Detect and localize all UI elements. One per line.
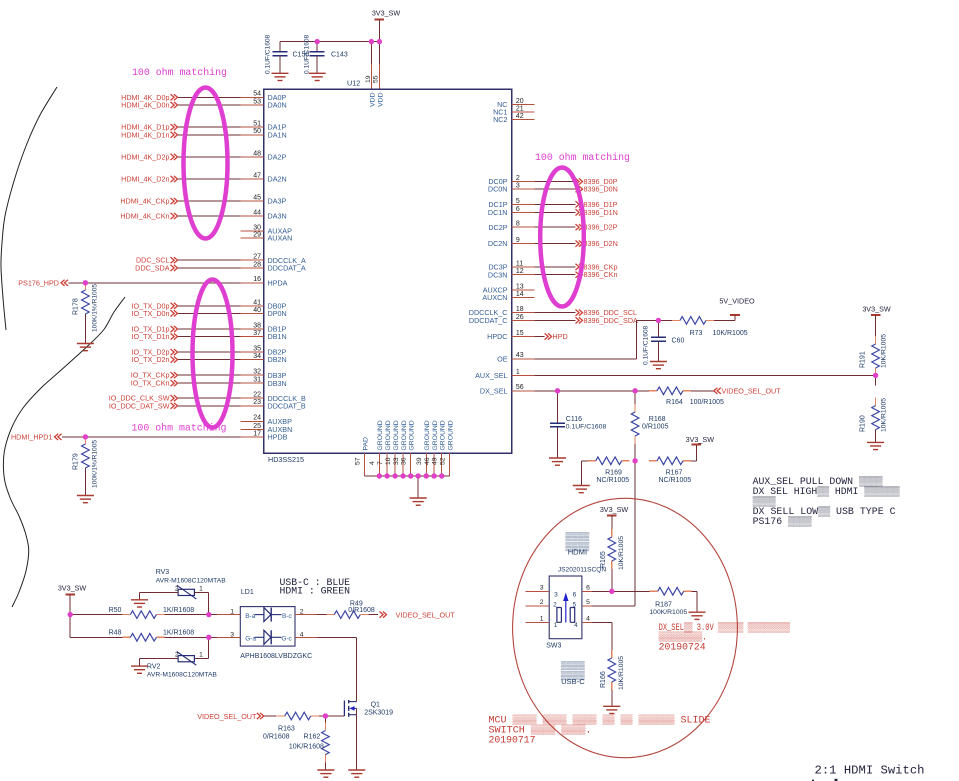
pin 38 DB1P (U12 left) — [241, 322, 287, 333]
svg-text:52: 52 — [440, 457, 447, 465]
svg-text:3V3_SW: 3V3_SW — [862, 304, 891, 313]
resistor R190 — [860, 375, 888, 442]
svg-text:44: 44 — [253, 209, 261, 216]
pin 54 DA0P (U12 left) — [241, 91, 287, 102]
pin 41 DB0P (U12 left) — [241, 299, 287, 310]
svg-text:1: 1 — [554, 622, 558, 629]
pin 17 HPDB (U12 left) — [241, 430, 288, 441]
junction AUX_SEL divider — [873, 373, 878, 378]
pin 25 AUXBN (U12 left) — [241, 423, 293, 434]
pin 16 HPDA (U12 left) — [241, 276, 288, 287]
svg-text:25: 25 — [253, 423, 261, 430]
svg-text:19: 19 — [365, 75, 372, 83]
svg-text:Q1: Q1 — [371, 701, 380, 708]
wire net HDMI_4K_D1p — [178, 126, 241, 128]
transistor Q1 2SK3019 — [344, 700, 393, 717]
wire net 8396_D1P — [535, 203, 576, 205]
wire to LED pin1 — [209, 614, 241, 616]
svg-text:20: 20 — [516, 98, 524, 105]
svg-text:GROUND: GROUND — [448, 420, 455, 450]
ground RV2 — [131, 666, 148, 673]
svg-text:41: 41 — [253, 299, 261, 306]
svg-text:100K/R1005: 100K/R1005 — [649, 609, 687, 616]
svg-text:10K/R1608: 10K/R1608 — [289, 744, 324, 751]
junction ground bus — [400, 473, 405, 478]
resistor R49 — [326, 600, 378, 618]
svg-text:8396_DDC_SDA: 8396_DDC_SDA — [584, 316, 639, 325]
junction C60 — [656, 318, 661, 323]
svg-text:G-c: G-c — [281, 636, 292, 643]
wire net IO_TX_CKp — [178, 374, 241, 376]
svg-text:5V_VIDEO: 5V_VIDEO — [719, 297, 755, 306]
svg-text:2: 2 — [175, 652, 179, 659]
pin 4 SW3 right — [582, 615, 592, 622]
svg-text:13: 13 — [516, 283, 524, 290]
svg-text:GROUND: GROUND — [409, 420, 416, 450]
annotation ellipse (DC matching) — [540, 168, 584, 307]
node 8396_CKp label — [576, 262, 618, 271]
svg-text:21: 21 — [516, 106, 524, 113]
pin 49 GROUND — [432, 420, 447, 476]
wire SW3 pin4 to R166 — [592, 622, 612, 650]
wire OE net — [535, 320, 673, 358]
pin 47 DA2N (U12 left) — [241, 172, 287, 183]
svg-text:LD1: LD1 — [241, 589, 254, 596]
svg-text:HDMI_4K_D0n: HDMI_4K_D0n — [121, 101, 169, 110]
svg-text:1: 1 — [230, 608, 234, 615]
pin 32 DB3P (U12 left) — [241, 369, 287, 380]
svg-text:3V3_SW: 3V3_SW — [600, 505, 629, 514]
ground C60 — [650, 362, 667, 369]
annotation ellipse (DB matching) — [193, 280, 233, 428]
annotation ellipse (DA matching) — [184, 88, 228, 239]
wire ground bus — [365, 475, 450, 477]
svg-text:26: 26 — [516, 314, 524, 321]
svg-text:DB3N: DB3N — [268, 379, 287, 388]
svg-text:▒▒▒▒: ▒▒▒▒ — [565, 531, 590, 541]
svg-text:14: 14 — [516, 291, 524, 298]
pin 36 GROUND — [401, 420, 416, 476]
wire net 8396_DDC_SDA — [535, 319, 576, 321]
pin 31 DB3N (U12 left) — [241, 377, 287, 388]
pin 45 DA3P (U12 left) — [241, 195, 287, 206]
junction R50 — [68, 612, 73, 617]
node HDMI_4K_D0p label — [121, 93, 177, 102]
svg-text:56: 56 — [516, 384, 524, 391]
annotation curve left-top — [1, 87, 57, 330]
ground Q1 — [348, 770, 365, 777]
svg-text:HDMI : GREEN: HDMI : GREEN — [280, 586, 351, 597]
svg-text:22: 22 — [253, 392, 261, 399]
svg-text:49: 49 — [432, 457, 439, 465]
svg-text:DA3N: DA3N — [268, 212, 287, 221]
pin 5 SW3 right — [582, 599, 592, 606]
svg-text:28: 28 — [253, 261, 261, 268]
svg-text:RV2: RV2 — [147, 664, 161, 671]
svg-text:HDMI: HDMI — [568, 548, 587, 557]
svg-text:16: 16 — [253, 276, 261, 283]
svg-text:R73: R73 — [690, 330, 703, 337]
node VIDEO_SEL_OUT label (Q1) — [197, 712, 264, 721]
svg-text:8396_D1N: 8396_D1N — [584, 208, 618, 217]
resistor R50 — [109, 607, 209, 618]
ground R166 — [603, 706, 620, 713]
svg-text:100K/1%/R1005: 100K/1%/R1005 — [92, 440, 99, 488]
svg-text:AVR-M1608C120MTAB: AVR-M1608C120MTAB — [147, 671, 218, 678]
svg-text:DA0N: DA0N — [268, 101, 287, 110]
svg-text:2: 2 — [175, 585, 179, 592]
svg-text:R164: R164 — [666, 399, 683, 406]
wire net HDMI_4K_D0p — [178, 96, 241, 98]
ground U12 pad — [410, 498, 427, 505]
svg-text:GROUND: GROUND — [393, 420, 400, 450]
node VIDEO_SEL_OUT label (LED) — [380, 610, 456, 619]
pin 15 HPDC (U12 right) — [487, 330, 534, 341]
wire net 8396_D2P — [535, 226, 576, 228]
svg-text:0.1UF/C1608: 0.1UF/C1608 — [265, 34, 272, 74]
wire net HDMI_4K_D0n — [178, 104, 241, 106]
svg-text:45: 45 — [253, 195, 261, 202]
svg-text:GROUND: GROUND — [424, 420, 431, 450]
node 8396_CKn label — [576, 270, 618, 279]
svg-text:3: 3 — [230, 631, 234, 638]
node IO_TX_CKn label — [131, 379, 178, 388]
svg-text:IO_TX_D2n: IO_TX_D2n — [132, 355, 170, 364]
svg-text:U12: U12 — [347, 79, 360, 88]
svg-text:VIDEO_SEL_OUT: VIDEO_SEL_OUT — [396, 610, 456, 619]
node IO_TX_D2n label — [132, 355, 178, 364]
svg-text:R165: R165 — [600, 551, 607, 568]
wire 3V3_SW stem — [378, 19, 380, 41]
wire SW3 pin6 to R187 — [592, 590, 650, 592]
svg-text:B-c: B-c — [282, 613, 293, 620]
svg-text:DB2N: DB2N — [268, 355, 287, 364]
svg-text:AUX_SEL: AUX_SEL — [475, 371, 507, 380]
svg-text:57: 57 — [355, 457, 362, 465]
node HDMI_4K_CKn label — [120, 212, 177, 221]
svg-text:DC3N: DC3N — [488, 270, 508, 279]
switch SW3 internals — [553, 592, 578, 630]
svg-text:HPDA: HPDA — [268, 278, 288, 287]
svg-text:HDMI_4K_D2n: HDMI_4K_D2n — [121, 175, 169, 184]
pin 9 DC2N (U12 right) — [488, 237, 535, 248]
junction VDD19 — [369, 39, 374, 44]
pin 35 DB2P (U12 left) — [241, 346, 287, 357]
pin 53 DA0N (U12 left) — [241, 98, 287, 109]
wire R73 to 5V — [714, 319, 735, 321]
node HDMI_4K_CKp label — [120, 197, 177, 206]
svg-text:23: 23 — [253, 399, 261, 406]
pin 4 GROUND — [369, 420, 384, 476]
pin 43 OE (U12 right) — [497, 352, 534, 363]
resistor R163 — [263, 712, 325, 740]
svg-text:VDD: VDD — [369, 92, 376, 106]
svg-text:DDCDAT_C: DDCDAT_C — [469, 316, 508, 325]
svg-text:0.1UF/C1608: 0.1UF/C1608 — [566, 424, 607, 431]
wire net IO_TX_CKn — [178, 382, 241, 384]
svg-text:6: 6 — [516, 206, 520, 213]
junction ground bus — [392, 473, 397, 478]
svg-text:10K/R1005: 10K/R1005 — [881, 398, 888, 432]
svg-text:5: 5 — [516, 198, 520, 205]
wire net 8396_D2N — [535, 243, 576, 245]
svg-text:DC1N: DC1N — [488, 208, 508, 217]
svg-text:1K/R1608: 1K/R1608 — [163, 607, 194, 614]
svg-text:12: 12 — [516, 268, 524, 275]
pin 26 DDCDAT_C (U12 right) — [469, 314, 535, 325]
note MCU SLIDE SWITCH — [489, 714, 711, 746]
wire LED pin4 to Q1 drain — [295, 637, 357, 701]
pin 24 AUXBP (U12 left) — [241, 415, 293, 426]
node 8396_D0N label — [576, 185, 618, 194]
svg-text:17: 17 — [253, 430, 261, 437]
resistor R165 — [600, 516, 625, 592]
wire net DDC_SDA — [178, 267, 241, 269]
ground C143 — [309, 73, 326, 80]
svg-text:USB-C: USB-C — [561, 677, 585, 686]
svg-text:IO_TX_D1n: IO_TX_D1n — [132, 332, 170, 341]
svg-text:PS176 ▒▒▒▒: PS176 ▒▒▒▒ — [753, 515, 812, 527]
junction ground bus — [377, 473, 382, 478]
svg-text:2: 2 — [516, 175, 520, 182]
resistor R162 — [289, 716, 329, 770]
svg-text:R168: R168 — [649, 416, 666, 423]
svg-text:R179: R179 — [73, 453, 80, 470]
pin 23 DDCDAT_B (U12 left) — [241, 399, 306, 410]
svg-text:8: 8 — [516, 221, 520, 228]
svg-text:DC2P: DC2P — [488, 223, 507, 232]
junction R179 — [83, 434, 88, 439]
wire net HDMI_4K_CKp — [178, 200, 241, 202]
wire to LED pin3 — [209, 636, 241, 638]
svg-text:6: 6 — [573, 592, 577, 599]
svg-text:1: 1 — [540, 615, 544, 622]
svg-text:GROUND: GROUND — [377, 420, 384, 450]
svg-text:DA2P: DA2P — [268, 153, 287, 162]
junction ground stem — [416, 473, 421, 478]
resistor R164 — [649, 387, 724, 406]
pin 40 DP0N (U12 left) — [241, 307, 287, 318]
wire top power rail — [280, 41, 379, 43]
node VIDEO_SEL_OUT label (right) — [714, 386, 781, 395]
svg-text:R191: R191 — [860, 351, 867, 368]
svg-text:32: 32 — [253, 369, 261, 376]
wire VDD pin55 — [378, 42, 380, 89]
svg-text:4: 4 — [369, 461, 376, 465]
diode LD1 green — [245, 630, 292, 644]
pin 33 GROUND — [393, 420, 408, 476]
pin 51 DA1P (U12 left) — [241, 121, 287, 132]
pin 39 GROUND — [416, 420, 431, 476]
svg-text:8396_D2P: 8396_D2P — [584, 223, 618, 232]
node IO_TX_D2p label — [132, 348, 178, 357]
partial text below title — [812, 779, 838, 781]
capacitor C116 — [550, 391, 606, 458]
svg-text:R187: R187 — [655, 601, 672, 608]
ground C116 — [549, 458, 566, 465]
svg-text:DX_SEL: DX_SEL — [480, 386, 508, 395]
junction ground bus — [408, 473, 413, 478]
wire net HPD — [535, 336, 545, 338]
junction R162/gate — [323, 713, 328, 718]
svg-text:1: 1 — [199, 585, 203, 592]
node HDMI_4K_D2p label — [121, 152, 177, 161]
wire net HDMI_4K_D2p — [178, 156, 241, 158]
ground RV3 — [131, 600, 148, 607]
svg-text:100 ohm matching: 100 ohm matching — [535, 152, 630, 163]
node 8396_D1P label — [576, 200, 618, 209]
pin 52 GROUND — [440, 420, 455, 476]
svg-text:100 ohm matching: 100 ohm matching — [132, 423, 227, 434]
wire net IO_TX_D1n — [178, 336, 241, 338]
svg-text:33: 33 — [393, 457, 400, 465]
svg-text:NC2: NC2 — [493, 115, 507, 124]
svg-text:3V3_SW: 3V3_SW — [686, 435, 715, 444]
node DDC_SDA label — [135, 263, 177, 272]
wire Q1 source — [356, 708, 358, 770]
svg-text:DC0N: DC0N — [488, 185, 508, 194]
pin 13 AUXCP (U12 right) — [483, 283, 535, 294]
svg-text:8396_CKn: 8396_CKn — [584, 270, 618, 279]
wire net HDMI_4K_D2n — [178, 178, 241, 180]
svg-text:APHB1608LVBDZGKC: APHB1608LVBDZGKC — [240, 653, 312, 660]
svg-text:DDCDAT_A: DDCDAT_A — [268, 264, 306, 273]
wire AUX_SEL net — [535, 374, 876, 376]
varistor RV3 — [140, 569, 227, 615]
resistor R166 — [600, 650, 625, 706]
node 8396_DDC_SCL label — [576, 308, 638, 317]
svg-text:15: 15 — [516, 330, 524, 337]
svg-text:6: 6 — [586, 584, 590, 591]
svg-text:34: 34 — [253, 353, 261, 360]
svg-text:3V3_SW: 3V3_SW — [58, 583, 87, 592]
wire net 8396_D0P — [535, 181, 576, 183]
pin 28 DDCDAT_A (U12 left) — [241, 261, 306, 272]
annotation curve left-S — [3, 297, 125, 607]
op-amp U12 HD3SS215 body — [264, 89, 512, 453]
svg-text:HDMI_4K_CKn: HDMI_4K_CKn — [120, 212, 169, 221]
svg-text:IO_DDC_DAT_SW: IO_DDC_DAT_SW — [109, 401, 170, 410]
pin 7 GROUND — [377, 420, 392, 476]
svg-text:27: 27 — [253, 254, 261, 261]
svg-text:R163: R163 — [278, 726, 295, 733]
svg-text:9: 9 — [516, 237, 520, 244]
pin 5 DC1P (U12 right) — [488, 198, 534, 209]
svg-text:20190717: 20190717 — [489, 735, 536, 746]
node IO_TX_D0p label — [132, 301, 178, 310]
pin 21 NC1 (U12 right) — [493, 106, 534, 117]
node HDMI_4K_D2n label — [121, 175, 177, 184]
node IO_TX_D0n label — [132, 309, 178, 318]
junction R168 top — [632, 388, 637, 393]
svg-text:C60: C60 — [672, 338, 685, 345]
svg-text:R169: R169 — [605, 470, 622, 477]
svg-text:B-a: B-a — [245, 613, 256, 620]
node HPD label — [545, 332, 568, 341]
svg-text:DA1N: DA1N — [268, 130, 287, 139]
LED LD1 body — [240, 607, 295, 647]
junction ground bus — [431, 473, 436, 478]
node PS176_HPD label — [18, 278, 68, 287]
wire VDD pin19 — [370, 42, 372, 89]
svg-text:3: 3 — [554, 592, 558, 599]
svg-text:36: 36 — [401, 457, 408, 465]
note silk HDMI — [565, 531, 590, 557]
junction ground bus — [439, 473, 444, 478]
svg-text:48: 48 — [253, 150, 261, 157]
svg-text:▒▒▒▒: ▒▒▒▒ — [561, 660, 586, 670]
svg-text:C143: C143 — [331, 52, 348, 59]
svg-text:DP0N: DP0N — [268, 309, 287, 318]
svg-text:30: 30 — [253, 224, 261, 231]
node 8396_D0P label — [576, 177, 618, 186]
svg-text:R166: R166 — [600, 671, 607, 688]
pin 56 DX_SEL (U12 right) — [480, 384, 535, 395]
svg-text:R50: R50 — [109, 607, 122, 614]
svg-text:100 ohm matching: 100 ohm matching — [132, 67, 227, 78]
svg-text:3V3_SW: 3V3_SW — [372, 9, 401, 18]
power 3V3_SW (R167) — [686, 435, 715, 445]
svg-text:54: 54 — [253, 91, 261, 98]
svg-text:IO_TX_CKn: IO_TX_CKn — [131, 379, 170, 388]
svg-text:43: 43 — [516, 352, 524, 359]
svg-text:1: 1 — [516, 369, 520, 376]
svg-text:GROUND: GROUND — [432, 420, 439, 450]
svg-text:R48: R48 — [109, 630, 122, 637]
svg-text:R190: R190 — [860, 415, 867, 432]
svg-text:2: 2 — [540, 599, 544, 606]
svg-text:SW3: SW3 — [546, 643, 561, 650]
svg-text:55: 55 — [373, 75, 380, 83]
wire VIDEO_SEL_OUT to R163 — [264, 715, 276, 717]
wire HDMI_HPD1 — [62, 436, 241, 438]
svg-text:DC2N: DC2N — [488, 239, 508, 248]
pin 37 DB1N (U12 left) — [241, 330, 287, 341]
pin 20 NC (U12 right) — [497, 98, 534, 109]
pin 3 SW3 left — [525, 584, 549, 591]
svg-text:NC/R1005: NC/R1005 — [658, 477, 691, 484]
svg-text:10: 10 — [385, 457, 392, 465]
junction VDD55 — [377, 39, 382, 44]
wire net 8396_CKp — [535, 266, 576, 268]
pin 8 DC2P (U12 right) — [488, 221, 534, 232]
wire net HDMI_4K_CKn — [178, 215, 241, 217]
junction C116 — [555, 388, 560, 393]
svg-text:24: 24 — [253, 415, 261, 422]
capacitor C60 — [643, 320, 685, 365]
power 3V3_SW (LED) — [58, 583, 87, 594]
power 3V3_SW (SW3) — [600, 505, 629, 516]
svg-text:42: 42 — [516, 113, 524, 120]
wire PS176_HPD — [69, 282, 241, 284]
pin 12 DC3N (U12 right) — [488, 268, 535, 279]
resistor R169 — [581, 457, 629, 485]
svg-text:VDD: VDD — [377, 92, 384, 106]
svg-text:20190724: 20190724 — [659, 642, 706, 653]
power 5V_VIDEO — [719, 297, 755, 321]
svg-text:0.1UF/C1608: 0.1UF/C1608 — [643, 325, 650, 365]
resistor R191 — [860, 315, 888, 376]
svg-text:G-a: G-a — [245, 636, 256, 643]
pin 11 DC3P (U12 right) — [488, 260, 534, 271]
svg-text:DDC_SDA: DDC_SDA — [135, 263, 170, 272]
wire net IO_TX_D0p — [178, 305, 241, 307]
svg-text:2:1 HDMI Switch: 2:1 HDMI Switch — [815, 764, 925, 778]
note DX_SEL 3.0V — [659, 621, 790, 653]
pin 6 DC1N (U12 right) — [488, 206, 535, 217]
node IO_DDC_DAT_SW label — [109, 401, 178, 410]
svg-text:OE: OE — [497, 354, 508, 363]
